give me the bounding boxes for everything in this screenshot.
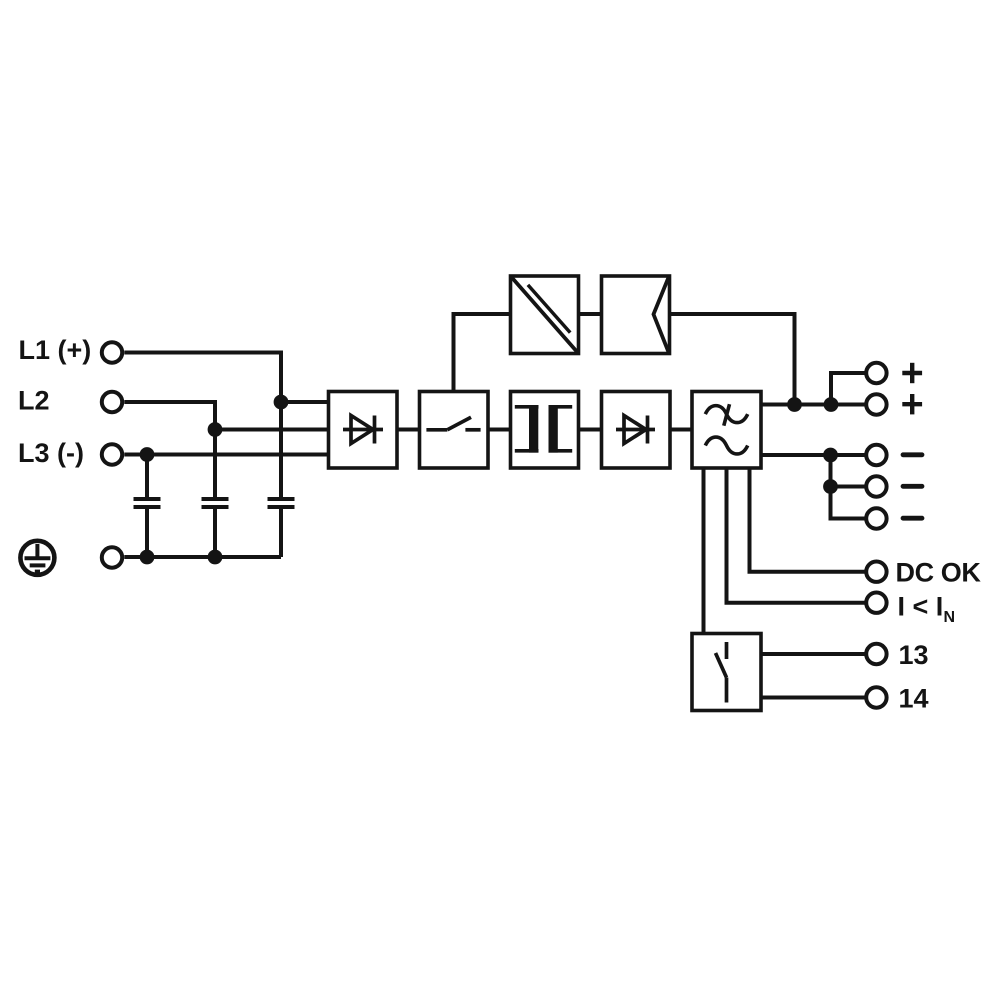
terminal L2 bbox=[102, 392, 122, 412]
terminal plus1 bbox=[866, 363, 886, 383]
wire DC OK bbox=[750, 468, 865, 572]
SFB chevron bbox=[654, 278, 669, 353]
wire DC/DC to SFB bbox=[579, 312, 602, 316]
terminal minus1 bbox=[866, 445, 886, 465]
minus sign 3 bbox=[903, 516, 922, 521]
wire relay feed bbox=[702, 468, 706, 634]
wire L2 bbox=[124, 402, 215, 499]
ground bbox=[20, 541, 54, 575]
terminal 14 bbox=[866, 687, 886, 707]
rectifier diode symbol bbox=[343, 416, 383, 444]
minus sign 2 bbox=[903, 484, 922, 489]
svg-text:L3 (-): L3 (-) bbox=[18, 438, 84, 468]
wire L3 cap branch bbox=[145, 455, 149, 500]
DC/DC diagonal bbox=[511, 276, 579, 354]
switch box bbox=[420, 392, 489, 469]
relay box bbox=[692, 634, 761, 711]
transformer box bbox=[511, 392, 579, 469]
svg-text:DC OK: DC OK bbox=[896, 557, 982, 587]
wire plus1 jog bbox=[831, 373, 865, 405]
node SFB join bbox=[787, 397, 802, 412]
diode symbol bbox=[616, 416, 655, 444]
terminal DC OK bbox=[866, 562, 886, 582]
plus sign 2 bbox=[902, 394, 922, 414]
terminal 13 bbox=[866, 644, 886, 664]
wire L2 to rectifier bbox=[215, 428, 330, 432]
svg-text:I < I: I < I bbox=[898, 592, 944, 622]
node L3-cap bbox=[140, 447, 155, 462]
wire L1 bbox=[124, 353, 281, 500]
wire 13 bbox=[761, 652, 865, 656]
transformer symbol bbox=[515, 405, 572, 453]
svg-text:13: 13 bbox=[899, 640, 929, 670]
svg-text:L2: L2 bbox=[18, 386, 50, 416]
wire switch to DC/DC top branch bbox=[454, 314, 511, 392]
wire SFB output bbox=[670, 314, 795, 405]
plus sign 1 bbox=[902, 363, 922, 383]
DC/DC converter box bbox=[511, 276, 579, 354]
filter sine dc bbox=[705, 437, 747, 454]
node plus branch bbox=[824, 397, 839, 412]
wire I<In bbox=[727, 468, 865, 603]
capacitor C1 bbox=[134, 499, 161, 557]
wire switch-transformer bbox=[488, 428, 511, 432]
wire filter plus output bbox=[761, 403, 865, 407]
wire minus bus bbox=[831, 455, 865, 519]
wire 14 bbox=[761, 696, 865, 700]
wire filter minus output bbox=[761, 453, 865, 457]
wire minus2 bbox=[831, 485, 865, 489]
terminal PE bbox=[102, 547, 122, 567]
DC/DC inner line bbox=[528, 285, 570, 333]
svg-text:N: N bbox=[944, 609, 956, 626]
capacitor C3 bbox=[268, 499, 295, 557]
terminal plus2 bbox=[866, 394, 886, 414]
diode box bbox=[602, 392, 671, 469]
rectifier box bbox=[329, 392, 398, 469]
relay contact symbol bbox=[716, 642, 727, 703]
wire transformer-diode bbox=[579, 428, 602, 432]
node PE-cap2 bbox=[208, 550, 223, 565]
capacitor C2 bbox=[202, 499, 229, 557]
terminal L3 bbox=[102, 444, 122, 464]
minus sign 1 bbox=[903, 452, 922, 457]
terminal L1 bbox=[102, 342, 122, 362]
wire PE bottom bbox=[124, 555, 281, 559]
terminal minus3 bbox=[866, 508, 886, 528]
terminal I<In bbox=[866, 593, 886, 613]
wire L3 bbox=[124, 453, 330, 457]
svg-text:L1 (+): L1 (+) bbox=[19, 335, 92, 365]
switch symbol bbox=[426, 417, 480, 430]
filter sine crossed bbox=[705, 404, 747, 426]
wire rectifier-switch bbox=[397, 428, 420, 432]
SFB box bbox=[602, 276, 670, 354]
wire diode-filter bbox=[670, 428, 692, 432]
svg-text:14: 14 bbox=[899, 684, 929, 714]
filter box bbox=[692, 392, 761, 469]
node L2-rectifier bbox=[208, 422, 223, 437]
node L1-rectifier bbox=[274, 395, 289, 410]
node minus branch 2 bbox=[823, 479, 838, 494]
node minus branch 1 bbox=[823, 448, 838, 463]
node PE-cap1 bbox=[140, 550, 155, 565]
wire L1 to rectifier bbox=[281, 400, 330, 404]
terminal minus2 bbox=[866, 476, 886, 496]
